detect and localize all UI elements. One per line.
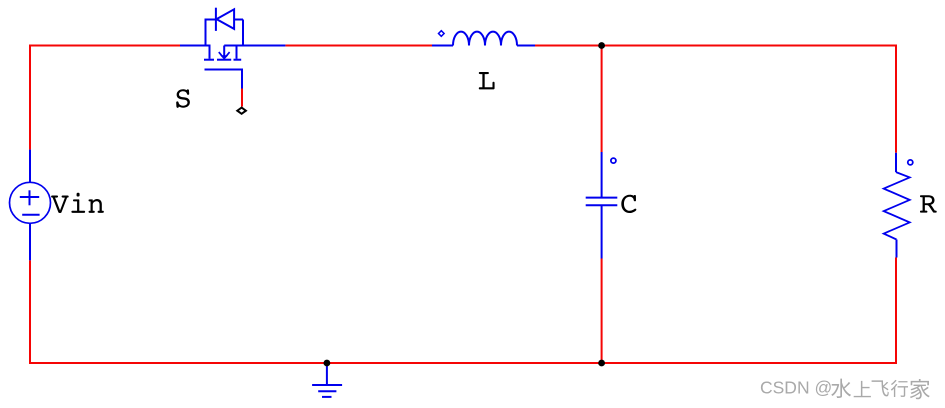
ground bar 1 bbox=[312, 384, 342, 386]
voltage source Vin symbol bbox=[10, 182, 51, 223]
wire top-left red: left rail top + top rail to MOSFET bbox=[30, 46, 180, 150]
wire top-right red: inductor to node and right rail top bbox=[535, 46, 896, 153]
label Vin bbox=[51, 193, 104, 213]
wire top middle red: MOSFET to inductor bbox=[285, 45, 432, 47]
label R bbox=[920, 195, 937, 212]
MOSFET S body-diode housing left vertical bbox=[205, 20, 207, 46]
MOSFET S source leg bbox=[236, 45, 238, 59]
watermark chinese glyphs bbox=[831, 379, 851, 398]
MOSFET S arrow lines bbox=[219, 52, 230, 56]
label C bbox=[621, 195, 636, 213]
MOSFET S housing top-left horizontal bbox=[205, 19, 216, 21]
node junction dot top (L-C-R node) bbox=[598, 42, 605, 49]
wire right rail blue below resistor bbox=[896, 240, 898, 258]
inductor L lead-in bbox=[432, 45, 453, 47]
wire top blue right of MOSFET bbox=[224, 45, 285, 47]
MOSFET S drain pad bbox=[204, 59, 214, 61]
wire cap branch lower red bbox=[601, 259, 603, 364]
wire cap branch blue above plate bbox=[601, 152, 603, 198]
ground bar 2 bbox=[318, 390, 336, 392]
label L bbox=[479, 72, 495, 89]
MOSFET S source pad bbox=[234, 59, 242, 61]
node junction dot ground bbox=[324, 360, 331, 367]
wire cap branch blue below plate bbox=[601, 205, 603, 258]
label S bbox=[176, 89, 190, 108]
wire left rail blue below source bbox=[29, 223, 31, 260]
capacitor C bottom plate bbox=[586, 204, 618, 206]
MOSFET S drain leg bbox=[209, 45, 211, 59]
MOSFET S middle pad bbox=[217, 59, 231, 61]
MOSFET S housing right vertical bbox=[242, 20, 244, 46]
diode triangle bbox=[217, 9, 235, 29]
wire bottom rail red: left rail bottom, bottom rail, right rail bottom bbox=[30, 258, 896, 364]
MOSFET S middle leg bbox=[223, 46, 225, 57]
MOSFET S gate lead blue bbox=[205, 70, 243, 89]
capacitor C top plate bbox=[586, 197, 618, 199]
resistor R zigzag bbox=[884, 172, 910, 239]
inductor L lead-out bbox=[517, 45, 535, 47]
wire top blue left of MOSFET bbox=[180, 45, 210, 47]
capacitor C polarity circle marker bbox=[611, 158, 616, 163]
MOSFET S housing top-right horizontal bbox=[234, 19, 243, 21]
wire gate terminal red bbox=[241, 89, 243, 107]
resistor R polarity circle marker bbox=[908, 160, 913, 165]
wire left rail blue above source bbox=[29, 150, 31, 183]
wire right rail blue above resistor bbox=[895, 153, 897, 172]
node junction dot bottom cap branch bbox=[598, 360, 605, 367]
wire cap branch upper red bbox=[601, 46, 603, 153]
gate terminal diamond bbox=[237, 108, 246, 114]
ground bar 3 bbox=[322, 396, 332, 398]
inductor L coils bbox=[453, 32, 517, 46]
inductor L dot marker diamond bbox=[439, 31, 445, 37]
svg-text:CSDN @: CSDN @ bbox=[760, 378, 832, 398]
MOSFET S arrow head fill bbox=[220, 55, 228, 60]
diode cathode bar bbox=[215, 8, 217, 31]
ground stem bbox=[326, 363, 328, 385]
